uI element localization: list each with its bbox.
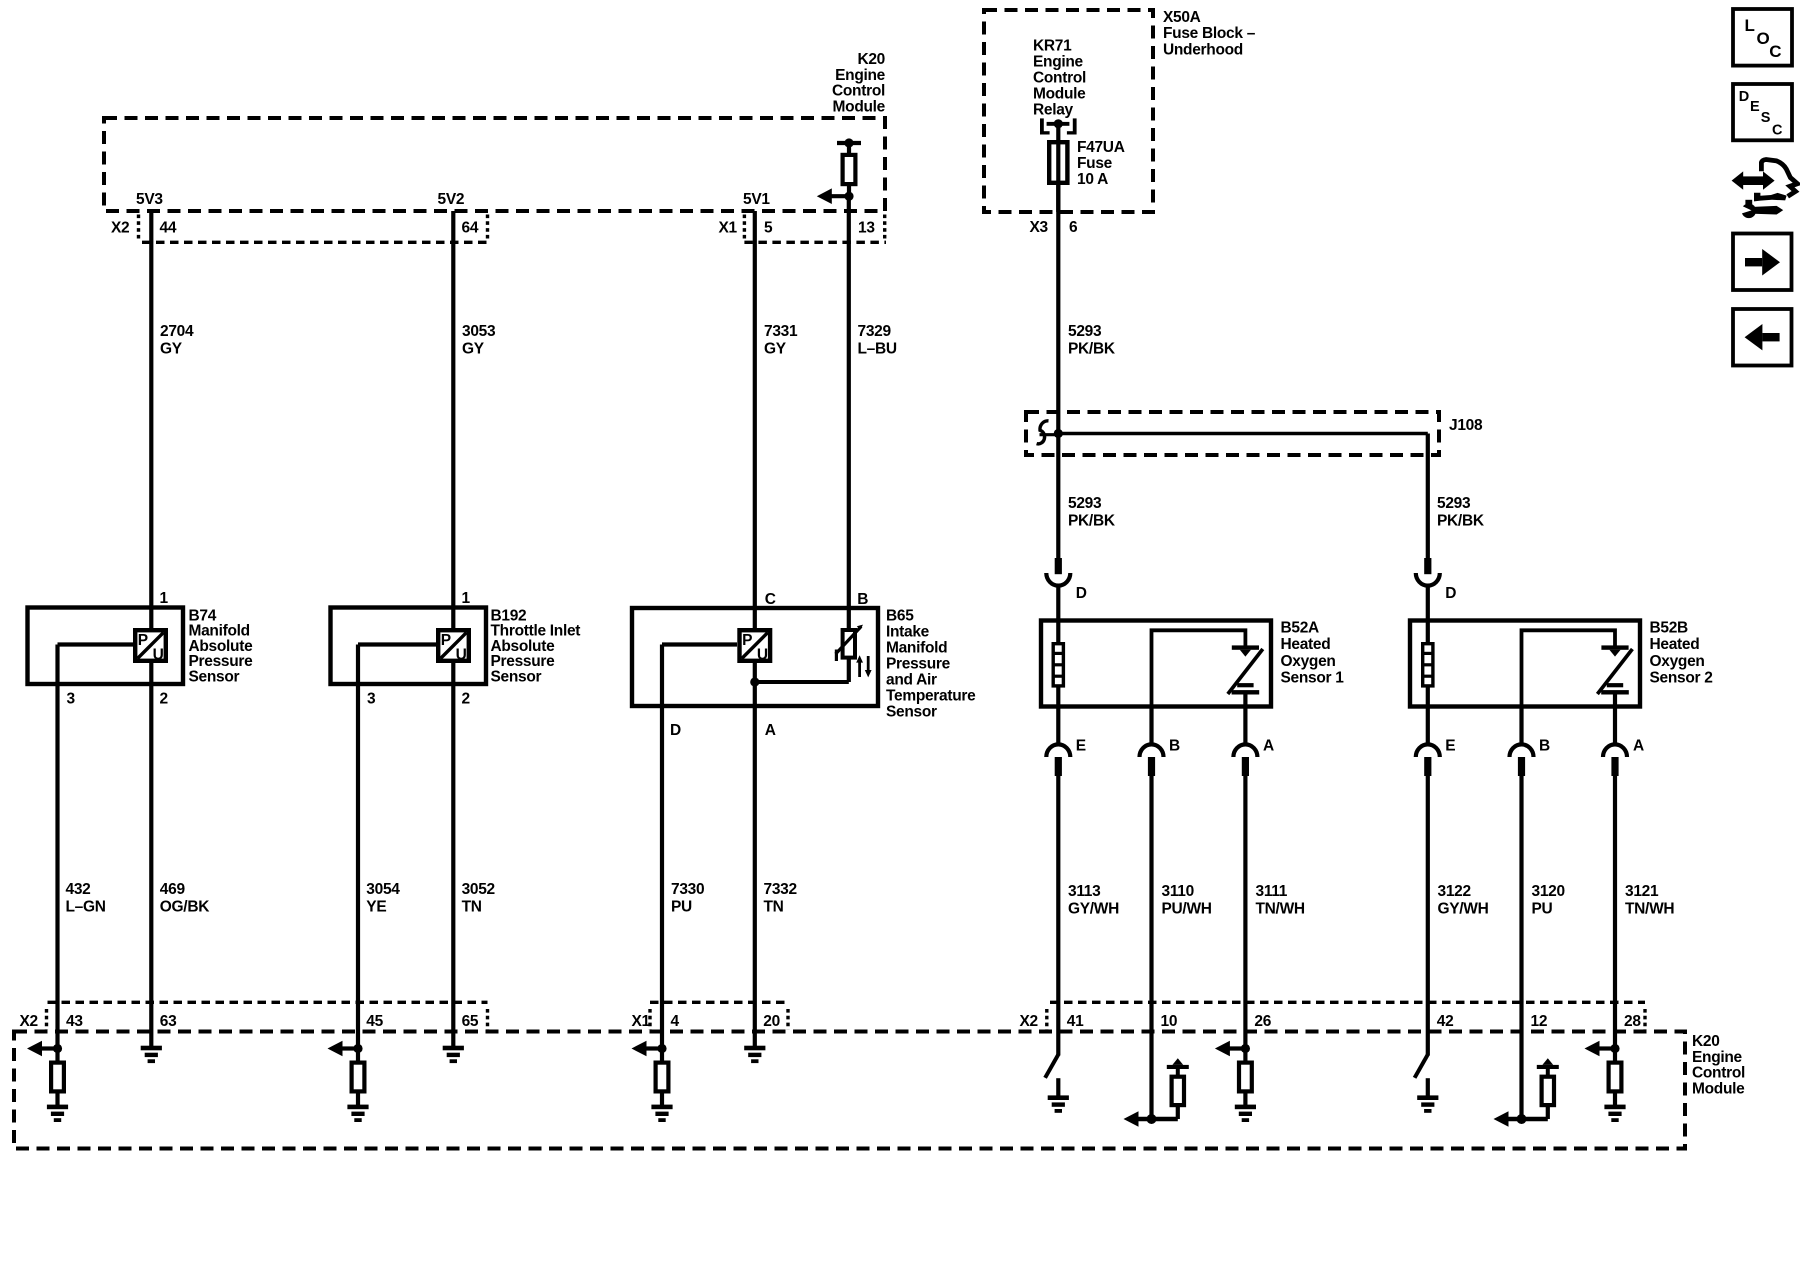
svg-text:1: 1 [160, 590, 169, 607]
wire B65 internal junction to thermistor [755, 680, 849, 684]
svg-text:44: 44 [160, 219, 177, 236]
svg-text:3052: 3052 [462, 881, 495, 898]
icon box DESC [1733, 84, 1792, 140]
ECM driver pin 26 (arrow, resistor, ground) [1241, 1044, 1250, 1053]
svg-text:2: 2 [160, 691, 168, 708]
svg-text:Fuse Block –: Fuse Block – [1163, 25, 1256, 42]
wire 3113 GY/WH [1056, 776, 1060, 1056]
wire relay to fuse [1056, 124, 1060, 142]
separator X2 band right [486, 215, 489, 241]
svg-text:Oxygen: Oxygen [1650, 653, 1705, 670]
svg-text:5V3: 5V3 [136, 191, 163, 208]
connector pin E (B52B) [1416, 744, 1440, 757]
svg-text:432: 432 [66, 881, 91, 898]
ECM driver pin 28 (arrow, resistor, ground) [1610, 1044, 1619, 1053]
svg-text:YE: YE [366, 898, 386, 915]
svg-text:Sensor 1: Sensor 1 [1281, 670, 1345, 687]
svg-text:S: S [1761, 110, 1771, 126]
svg-text:X50A: X50A [1163, 9, 1201, 26]
svg-text:L–GN: L–GN [66, 898, 106, 915]
svg-text:A: A [765, 722, 776, 739]
separator X1 band right [883, 215, 886, 241]
svg-text:KR71: KR71 [1033, 38, 1072, 55]
svg-text:GY: GY [160, 341, 183, 358]
separator bottom X2-left a [45, 1009, 48, 1030]
svg-text:PU: PU [671, 898, 692, 915]
ECM ground pin 65 [443, 1046, 464, 1051]
svg-text:7330: 7330 [671, 881, 704, 898]
junction dot splice J108 [1054, 429, 1063, 438]
svg-text:TN/WH: TN/WH [1256, 901, 1305, 918]
svg-text:Module: Module [833, 98, 886, 115]
sensor box B52B [1410, 621, 1640, 707]
svg-text:3054: 3054 [366, 881, 400, 898]
separator bottom X1 a [648, 1009, 651, 1030]
svg-text:P: P [742, 632, 752, 649]
thermistor symbol (B65 air temp) [843, 630, 855, 658]
svg-text:Sensor: Sensor [886, 703, 937, 720]
wire B52B heater to pin E [1426, 686, 1430, 745]
wire B52B element to pin A [1613, 693, 1617, 745]
svg-text:3: 3 [367, 691, 376, 708]
wire B192 pin 3 down [356, 645, 360, 1049]
wire 3110 PU/WH [1149, 776, 1153, 1119]
svg-text:E: E [1445, 737, 1455, 754]
connector band X2 bottom line (top left) [142, 241, 488, 244]
svg-text:6: 6 [1069, 219, 1078, 236]
svg-text:O: O [1757, 29, 1770, 48]
svg-text:3120: 3120 [1532, 883, 1565, 900]
svg-text:7331: 7331 [764, 323, 798, 340]
svg-text:A: A [1633, 737, 1644, 754]
svg-text:TN: TN [764, 898, 784, 915]
svg-text:PU: PU [1532, 901, 1553, 918]
svg-text:L–BU: L–BU [858, 341, 897, 358]
svg-text:63: 63 [160, 1013, 177, 1030]
wire 3120 PU [1519, 776, 1523, 1119]
svg-text:OG/BK: OG/BK [160, 898, 210, 915]
arrow-left glyph [1762, 333, 1779, 341]
svg-text:Engine: Engine [1033, 54, 1084, 71]
icon vehicle-repair (double arrow + wrench) [1732, 171, 1744, 189]
ECM driver pin 4 (arrow, resistor, ground) [657, 1044, 666, 1053]
wire B52B sense element circuit [1522, 630, 1616, 706]
svg-text:P: P [138, 632, 148, 649]
heater element (B52B) [1423, 644, 1433, 686]
wire B52A heater to pin E [1056, 686, 1060, 745]
wire B52B pin B down [1519, 707, 1523, 746]
svg-text:PK/BK: PK/BK [1068, 341, 1116, 358]
ECM ground pin 20 [744, 1046, 765, 1051]
svg-text:U: U [153, 647, 164, 664]
svg-text:D: D [1076, 585, 1087, 602]
svg-text:C: C [1769, 42, 1781, 61]
resistor R-int1 (ECM internal, wire 13) [843, 155, 856, 184]
svg-text:Module: Module [1692, 1080, 1745, 1097]
svg-text:10: 10 [1161, 1013, 1178, 1030]
temperature arrows (B65) [858, 660, 861, 677]
svg-text:X3: X3 [1030, 219, 1049, 236]
svg-text:3122: 3122 [1438, 883, 1471, 900]
svg-text:64: 64 [462, 219, 479, 236]
svg-text:41: 41 [1067, 1013, 1084, 1030]
svg-text:TN: TN [462, 898, 482, 915]
svg-text:X1: X1 [719, 219, 738, 236]
svg-text:Temperature: Temperature [886, 687, 976, 704]
signal arrow (to ECM) on wire 13 [831, 194, 849, 198]
sensor box B65 [632, 608, 878, 706]
svg-text:A: A [1263, 737, 1274, 754]
svg-text:B52B: B52B [1650, 619, 1689, 636]
arrow-right glyph [1745, 258, 1762, 266]
separator bottom X1 b [786, 1009, 789, 1030]
svg-text:E: E [1076, 737, 1086, 754]
svg-text:TN/WH: TN/WH [1625, 901, 1674, 918]
svg-text:7329: 7329 [858, 323, 892, 340]
svg-text:7332: 7332 [764, 881, 797, 898]
ECM switch pin 41 (low-side switch to ground) [1045, 1055, 1058, 1078]
svg-text:B52A: B52A [1281, 619, 1320, 636]
fuse F47UA (10 A) [1049, 142, 1067, 183]
svg-text:45: 45 [366, 1013, 383, 1030]
junction dot wire 13 [844, 192, 853, 201]
wire B192 internal (P/U left to pin 3) [358, 642, 437, 646]
wire J108 to B52A pin D [1056, 434, 1060, 559]
icon box LOC [1733, 9, 1792, 66]
internal bias bar on wire 13 [837, 141, 861, 145]
svg-text:Module: Module [1033, 86, 1086, 103]
wire B52A sense element circuit [1152, 630, 1246, 706]
svg-text:5293: 5293 [1068, 323, 1102, 340]
svg-text:Manifold: Manifold [886, 639, 947, 656]
svg-text:20: 20 [763, 1013, 780, 1030]
svg-text:Heated: Heated [1650, 636, 1700, 653]
oxygen sense element (B52A) [1232, 645, 1259, 649]
svg-text:B65: B65 [886, 607, 914, 624]
svg-text:3: 3 [67, 691, 76, 708]
svg-text:4: 4 [671, 1013, 680, 1030]
svg-text:L: L [1745, 16, 1755, 35]
svg-text:Fuse: Fuse [1077, 155, 1113, 172]
svg-text:43: 43 [66, 1013, 83, 1030]
pressure sensor symbol P/U (B192) [438, 630, 469, 661]
svg-text:Control: Control [1033, 70, 1086, 87]
svg-text:2704: 2704 [160, 323, 194, 340]
svg-text:E: E [1750, 99, 1760, 115]
ECM switch pin 42 (low-side switch to ground) [1415, 1055, 1428, 1078]
pressure sensor symbol P/U (B74) [135, 630, 166, 661]
ECM input pin 10 (arrow, pull-up resistor) [1147, 1114, 1157, 1124]
connector band X1 bottom line (top) [744, 241, 886, 244]
connector pin A (B52B) [1603, 744, 1627, 757]
svg-text:P: P [441, 632, 451, 649]
svg-text:469: 469 [160, 881, 186, 898]
wire J108 jumper to B52B [1058, 432, 1428, 436]
svg-text:C: C [1772, 122, 1783, 138]
svg-text:GY/WH: GY/WH [1438, 901, 1489, 918]
separator bottom X2-right b [1643, 1009, 1646, 1030]
svg-text:42: 42 [1437, 1013, 1454, 1030]
sensor box B52A [1041, 621, 1271, 707]
svg-text:65: 65 [462, 1013, 479, 1030]
wire B65 pin D down [660, 645, 664, 1049]
connector pin D of B52B [1424, 558, 1431, 574]
svg-text:28: 28 [1624, 1013, 1641, 1030]
svg-text:U: U [757, 647, 768, 664]
svg-text:X2: X2 [20, 1013, 38, 1030]
svg-text:Heated: Heated [1281, 636, 1331, 653]
connector pin A (B52A) [1233, 744, 1257, 757]
splice box J108 (dashed) [1026, 412, 1439, 455]
svg-text:GY/WH: GY/WH [1068, 901, 1119, 918]
svg-text:3111: 3111 [1256, 883, 1288, 900]
wire 2704 GY (5V3 to B74 pin 1) [149, 211, 153, 629]
svg-text:K20: K20 [857, 51, 885, 68]
svg-text:5: 5 [764, 219, 773, 236]
svg-text:12: 12 [1531, 1013, 1548, 1030]
svg-text:PK/BK: PK/BK [1437, 512, 1485, 529]
wire through fuse F47UA [1056, 140, 1060, 212]
wire 7331 GY (5V1 to B65 pin C) [753, 211, 757, 629]
wire thermistor bottom stub [847, 659, 851, 682]
fuse block X50A box (dashed) [984, 10, 1153, 212]
separator bottom X2-left b [486, 1009, 489, 1030]
svg-text:Sensor 2: Sensor 2 [1650, 670, 1713, 687]
oxygen sense element (B52B) [1601, 645, 1628, 649]
wire B74 pin 3 down [55, 645, 59, 1049]
wire 3122 GY/WH [1426, 776, 1430, 1056]
svg-text:3121: 3121 [1625, 883, 1659, 900]
svg-text:Oxygen: Oxygen [1281, 653, 1336, 670]
svg-text:Relay: Relay [1033, 102, 1074, 119]
stub bias bar to resistor R-int1 [847, 143, 851, 154]
icon box arrow-left [1733, 309, 1792, 366]
svg-text:Intake: Intake [886, 623, 930, 640]
sensor box B192 [331, 608, 487, 685]
svg-text:10 A: 10 A [1077, 171, 1108, 188]
svg-text:3110: 3110 [1162, 883, 1194, 900]
wire B74 internal (P/U left to pin 3) [58, 642, 136, 646]
wire 5293 PK/BK (fuse to J108) [1056, 185, 1060, 434]
svg-text:5V1: 5V1 [743, 191, 770, 208]
wire B52A pin B down [1149, 707, 1153, 746]
svg-text:PU/WH: PU/WH [1162, 901, 1212, 918]
splice pigtail symbol [1037, 421, 1049, 444]
wire B65 pin A (P/U down to box bottom and out) [753, 662, 757, 1046]
svg-text:PK/BK: PK/BK [1068, 512, 1116, 529]
svg-text:X2: X2 [1020, 1013, 1038, 1030]
relay KR71 output bracket [1040, 118, 1044, 134]
junction dot at bias bar [844, 138, 853, 147]
svg-text:GY: GY [764, 341, 787, 358]
connector pin B (B52B) [1510, 744, 1534, 757]
svg-text:B: B [1169, 737, 1180, 754]
svg-text:Control: Control [832, 83, 885, 100]
wire B74 pin2 (P/U to box bottom) [149, 662, 153, 1046]
svg-text:U: U [456, 647, 467, 664]
ECM input pin 12 (arrow, pull-up resistor) [1517, 1114, 1527, 1124]
svg-text:13: 13 [858, 219, 875, 236]
svg-text:Sensor: Sensor [491, 669, 542, 686]
icon box arrow-right [1733, 234, 1792, 291]
svg-text:GY: GY [462, 341, 485, 358]
sensor box B74 [28, 608, 184, 685]
svg-text:B: B [1539, 737, 1550, 754]
ECM driver pin 43 (arrow, resistor, ground) [53, 1044, 62, 1053]
wire B65 internal (P/U left to pin D) [662, 642, 737, 646]
wire 3053 GY (5V2 to B192 pin 1) [451, 211, 455, 629]
pressure sensor symbol P/U (B65) [740, 630, 771, 661]
separator X1 band left [743, 215, 746, 241]
svg-text:Pressure: Pressure [886, 655, 951, 672]
connector pin D of B52A [1055, 558, 1062, 574]
svg-text:Underhood: Underhood [1163, 41, 1243, 58]
svg-text:J108: J108 [1449, 417, 1483, 434]
connector pin E (B52A) [1046, 744, 1070, 757]
wire into B52A heater [1056, 584, 1060, 643]
ECM module box K20 (top, dashed) [104, 118, 885, 211]
svg-text:D: D [1739, 89, 1749, 105]
wire B52A element to pin A [1243, 693, 1247, 745]
junction dot B65 internal [750, 677, 759, 686]
ECM driver pin 45 (arrow, resistor, ground) [353, 1044, 362, 1053]
svg-text:X2: X2 [111, 219, 129, 236]
ECM module box K20 (bottom, dashed) [14, 1032, 1685, 1149]
bottom band X2-right line [1050, 1001, 1645, 1004]
bottom band X2-left line [48, 1001, 488, 1004]
svg-text:26: 26 [1254, 1013, 1271, 1030]
wire B192 pin2 (P/U to box bottom) [451, 662, 455, 1046]
svg-text:5293: 5293 [1068, 495, 1102, 512]
heater element (B52A) [1053, 644, 1063, 686]
svg-text:B: B [857, 591, 868, 608]
connector pin B (B52A) [1140, 744, 1164, 757]
svg-text:K20: K20 [1692, 1033, 1720, 1050]
svg-text:1: 1 [462, 590, 471, 607]
ECM ground pin 63 [141, 1046, 162, 1051]
svg-text:and Air: and Air [886, 671, 937, 688]
svg-text:5293: 5293 [1437, 495, 1471, 512]
svg-text:3113: 3113 [1068, 883, 1101, 900]
wire into B52B heater [1426, 584, 1430, 643]
svg-text:Engine: Engine [835, 67, 886, 84]
separator X2 band left [137, 215, 140, 241]
svg-text:Sensor: Sensor [189, 669, 240, 686]
svg-text:F47UA: F47UA [1077, 139, 1125, 156]
svg-text:C: C [765, 591, 776, 608]
wire 3121 TN/WH [1613, 776, 1617, 1049]
separator bottom X2-right a [1045, 1009, 1048, 1030]
svg-text:3053: 3053 [462, 323, 496, 340]
svg-text:D: D [1445, 585, 1456, 602]
svg-text:5V2: 5V2 [438, 191, 465, 208]
wire resistor to junction 13 [847, 185, 851, 198]
svg-text:X1: X1 [632, 1013, 651, 1030]
svg-text:D: D [670, 722, 681, 739]
wire 7329 L-BU (pin 13 to B65 pin B) [847, 196, 851, 628]
svg-text:Engine: Engine [1692, 1049, 1743, 1066]
svg-text:2: 2 [462, 691, 470, 708]
wire 3111 TN/WH [1243, 776, 1247, 1049]
bottom band X1 line [650, 1001, 788, 1004]
svg-text:Control: Control [1692, 1065, 1745, 1082]
